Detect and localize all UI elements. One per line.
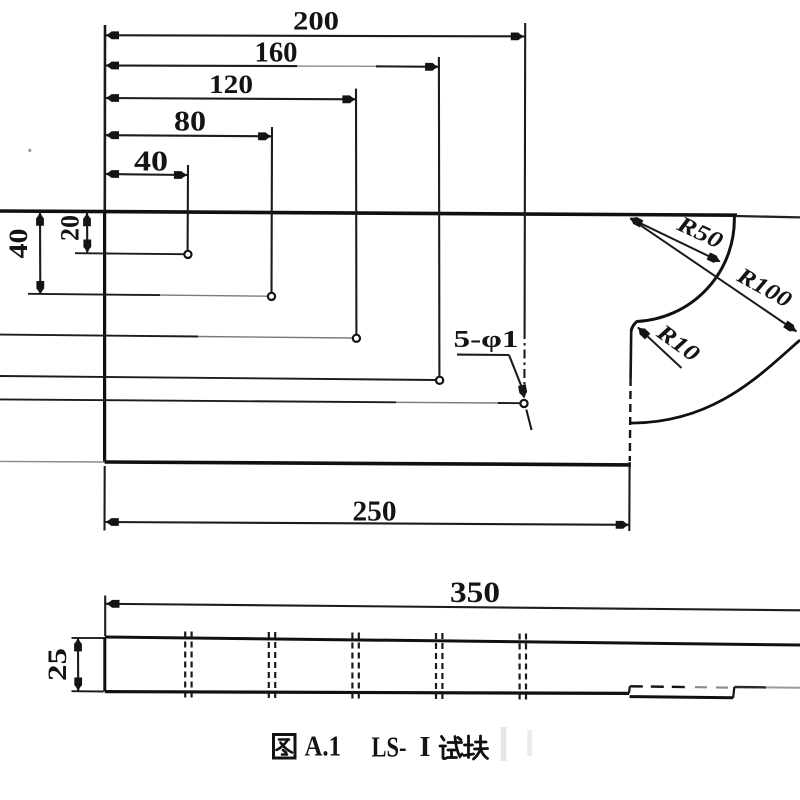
extension above side view left face	[104, 596, 106, 637]
bottom edge of block (plan view)	[105, 462, 631, 465]
right jog	[733, 687, 734, 698]
dimension line 200	[105, 35, 525, 36]
stray scan speck	[28, 149, 31, 152]
step face dashed part	[629, 378, 632, 461]
top edge thin continuation right of arc	[736, 216, 800, 217]
svg-text:A.1: A.1	[305, 731, 342, 763]
leader underline	[457, 354, 509, 356]
notch hidden dashed edge	[630, 685, 690, 688]
hole 3	[353, 335, 360, 342]
faint page bleed-through smudges	[501, 727, 507, 761]
R100 radial leader line	[631, 219, 797, 332]
hole locator line 4	[0, 376, 436, 380]
svg-text:80: 80	[174, 107, 206, 138]
caption hanzi tu (图)	[274, 735, 296, 759]
dimension 25	[77, 638, 79, 691]
notch lower solid edge	[630, 697, 734, 698]
hole 4	[436, 377, 443, 384]
extension vertical from hole 5 (centerline)	[524, 23, 527, 330]
faint bottom extension to left margin	[0, 460, 105, 463]
dimension line 160	[105, 64, 297, 67]
dimension line 120	[105, 98, 356, 99]
svg-text:200: 200	[293, 7, 339, 36]
dimension line 40	[105, 174, 188, 175]
hidden hole lines pair 2	[268, 632, 270, 700]
R100 arc	[630, 340, 800, 423]
leader line to hole 5	[509, 355, 523, 389]
extension vertical from hole 3	[355, 89, 357, 335]
notch jog up	[628, 686, 631, 693]
hole 2	[268, 293, 275, 300]
svg-text:350: 350	[450, 576, 500, 609]
hole 1	[184, 251, 191, 258]
dimension line 80	[105, 135, 272, 136]
dimension line 350	[106, 604, 800, 611]
25 extension top	[72, 637, 104, 639]
dimension line 250	[105, 522, 629, 525]
svg-text:160: 160	[255, 38, 298, 69]
top edge of block (plan view)	[0, 211, 737, 215]
R10 leader line	[638, 327, 682, 368]
25 extension bottom	[72, 690, 104, 692]
svg-text:120: 120	[209, 70, 253, 99]
hole locator line 5	[0, 399, 396, 402]
svg-text:40: 40	[134, 147, 168, 178]
svg-text:250: 250	[353, 496, 397, 528]
vertical dimension 20	[86, 213, 88, 253]
svg-text:25: 25	[43, 648, 72, 681]
extension below left face for 250	[103, 466, 105, 531]
svg-text:I: I	[420, 731, 431, 763]
right bottom edge	[734, 686, 766, 689]
vertical dimension 40	[39, 212, 41, 294]
hole 5	[520, 400, 527, 407]
hole locator line 3	[0, 335, 198, 337]
left face of block (plan view)	[103, 211, 106, 463]
hidden hole lines pair 3	[351, 633, 353, 701]
side view top edge	[105, 637, 800, 645]
extension vertical from hole 4	[438, 57, 441, 377]
svg-text:5-φ1: 5-φ1	[454, 327, 519, 353]
R50 arc with R10 fillet	[631, 215, 734, 331]
hole locator line 1	[75, 253, 184, 254]
extension vertical from hole 1	[187, 165, 189, 251]
svg-text:LS-: LS-	[372, 732, 407, 764]
extension vertical from hole 2	[270, 127, 273, 293]
hole locator line 2	[28, 294, 160, 295]
side view left face	[103, 637, 106, 692]
R50 radial leader line	[631, 219, 720, 262]
side view bottom edge	[105, 692, 629, 694]
extension line above left face	[104, 25, 107, 211]
tail below hole 5	[526, 410, 531, 431]
caption hanzi kuai (块)	[464, 736, 488, 759]
hidden hole lines pair 5	[518, 634, 520, 702]
step face solid part	[629, 330, 632, 378]
svg-text:40: 40	[4, 229, 33, 259]
hidden hole lines pair 1	[184, 632, 186, 700]
svg-text:20: 20	[56, 215, 85, 241]
hidden hole lines pair 4	[435, 633, 437, 701]
caption hanzi shi (试)	[440, 737, 462, 759]
extension below step face	[628, 462, 630, 531]
